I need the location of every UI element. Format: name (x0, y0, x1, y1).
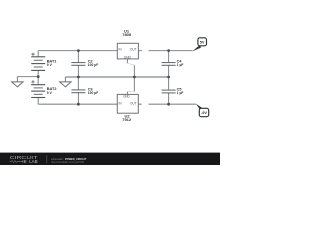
watermark bar (0, 153, 220, 165)
op-amp U1 (voltage regulator 7805) body (117, 43, 138, 59)
svg-text:7805: 7805 (122, 32, 132, 37)
ground (battery midpoint) (12, 82, 24, 87)
battery BAT2 (31, 85, 45, 98)
net flag 5V pointer (192, 45, 201, 51)
svg-text:5V: 5V (200, 39, 205, 44)
wire: ground rail (mid) (65, 76, 168, 78)
net flag 5V box (198, 38, 207, 46)
net flag -9V box (199, 108, 208, 116)
wire: U2 GND connector (127, 91, 134, 93)
svg-text:LAB: LAB (29, 159, 38, 164)
svg-text:9 V: 9 V (47, 63, 53, 67)
wire: C3 bottom stub (77, 93, 79, 105)
wire: C2 bottom stub to ground rail (77, 65, 79, 77)
wire: U2 GND stub (126, 92, 128, 95)
wire: C5 top stub (168, 77, 170, 90)
wire: BAT1 plus terminal to top rail corner (37, 51, 39, 57)
wire: ground 2 stub (64, 77, 66, 82)
wire: C3 top stub (77, 77, 79, 90)
net flag -9V pointer (196, 104, 203, 111)
BAT2 plus sign (31, 80, 34, 83)
junction: battery midpoint (37, 75, 40, 78)
wire: top rail from BAT1 to U1 IN pin (38, 50, 117, 52)
junction: top rail / C4 (167, 49, 170, 52)
junction: bottom rail / C3 (77, 103, 80, 106)
wire: U2 ground rise to rail (133, 77, 135, 92)
wire: C2 top stub (77, 51, 79, 63)
wire: C5 bottom stub (168, 93, 170, 104)
svg-text:http://circuitlab.com/cyd3749: http://circuitlab.com/cyd3749 (51, 160, 84, 164)
svg-text:1 µF: 1 µF (177, 63, 184, 67)
svg-text:-9V: -9V (201, 110, 207, 115)
svg-text:GND: GND (124, 56, 132, 60)
watermark divider (46, 155, 48, 163)
svg-text:OUT: OUT (130, 102, 137, 106)
wire: C4 bottom stub (168, 65, 170, 77)
svg-text:1 µF: 1 µF (177, 91, 184, 95)
op-amp U2 (voltage regulator 7912) body (117, 94, 138, 113)
capacitor C5 (162, 90, 176, 93)
wire: U2 OUT to -9V flag (138, 103, 196, 105)
wire: U1 GND stub (126, 59, 128, 63)
svg-text:7912: 7912 (122, 117, 132, 122)
junction: ground rail / C2-C3 (77, 76, 80, 79)
wire: BAT2 bottom to bottom rail (37, 98, 39, 105)
svg-text:100 µF: 100 µF (88, 91, 99, 95)
wire: U1 OUT pin to 5V flag (138, 50, 192, 52)
CircuitLab logo second row with resistor and capacitor glyphs (10, 160, 27, 163)
wire: U1 ground drop to rail (133, 65, 135, 77)
ground (capacitor midpoint) (60, 82, 72, 87)
junction: top rail / C2 (77, 49, 80, 52)
wire: battery middle junction to ground 1 (17, 70, 38, 84)
wire: C4 top stub (168, 51, 170, 63)
svg-text:100 µF: 100 µF (88, 63, 99, 67)
capacitor C3 (71, 90, 85, 93)
svg-text:OUT: OUT (130, 48, 137, 52)
svg-text:9 V: 9 V (47, 91, 53, 95)
svg-text:GND: GND (123, 94, 130, 98)
wire: U1 GND diagonal connector (127, 63, 134, 65)
capacitor C2 (71, 63, 85, 66)
junction: ground rail / C4-C5 (167, 76, 170, 79)
BAT1 plus sign (31, 53, 34, 56)
wire: bottom rail from BAT2 to U2 IN (38, 103, 117, 105)
capacitor C4 (162, 63, 176, 66)
battery BAT1 (31, 57, 45, 71)
junction: ground rail / regulators (133, 76, 136, 79)
junction: bottom rail / C5 (167, 103, 170, 106)
